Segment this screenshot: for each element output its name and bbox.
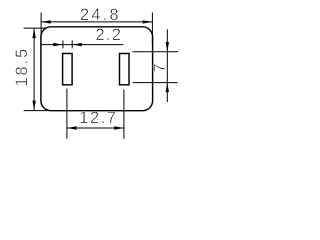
dim 12.7 extension line right [123, 90, 125, 139]
dim 18.5 extension line top [24, 27, 47, 29]
body outline [41, 27, 153, 111]
svg-text:18.5: 18.5 [13, 49, 31, 87]
svg-text:7: 7 [151, 63, 169, 72]
svg-text:24.8: 24.8 [80, 6, 119, 24]
dim 7 arrow pointing up [166, 83, 169, 93]
dim 12.7 arrow right [114, 126, 124, 129]
dim 24.8 arrow left [41, 20, 51, 23]
dim 2.2 extension tick right [71, 41, 73, 49]
dim 12.7 extension line left [66, 89, 68, 139]
dim 7 extension line top [133, 51, 179, 53]
dim 7 dimension line [166, 29, 168, 102]
dim 18.5 extension line bottom [24, 110, 47, 112]
dim 2.2 arrow pointing right [53, 43, 63, 46]
dim 24.8 extension line right [151, 13, 153, 45]
dim 18.5 arrow bottom [32, 101, 35, 111]
dim 7 arrow pointing down [166, 42, 169, 52]
dim 2.2 dimension line with outside tails [42, 44, 124, 46]
svg-text:12.7: 12.7 [79, 109, 116, 127]
svg-text:2.2: 2.2 [96, 26, 121, 44]
dim 18.5 arrow top [32, 28, 35, 38]
dim 2.2 extension tick left [62, 41, 64, 49]
left slot [63, 54, 73, 85]
dim 24.8 dimension line [41, 21, 152, 23]
dim 24.8 arrow right [143, 20, 153, 23]
dim 24.8 extension line left [40, 13, 42, 45]
dim 12.7 dimension line [67, 127, 124, 129]
dim 2.2 arrow pointing left [72, 43, 82, 46]
dim 18.5 dimension line [33, 28, 35, 110]
dim 12.7 arrow left [67, 126, 77, 129]
dim 7 extension line bottom [133, 82, 178, 84]
right slot [120, 54, 130, 85]
